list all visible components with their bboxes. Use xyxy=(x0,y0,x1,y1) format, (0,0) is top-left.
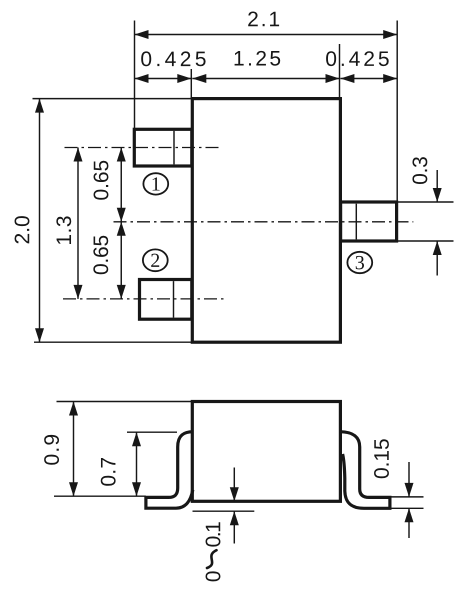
label 0a xyxy=(206,571,221,581)
dimension 1.3 xyxy=(77,148,79,299)
dimension 0.15 lead thickness xyxy=(391,496,424,498)
extension line package left edge above top xyxy=(190,69,192,98)
label 0.7 xyxy=(101,458,116,486)
extension line foot top left xyxy=(54,495,146,497)
package body side view xyxy=(192,402,340,502)
pin 3 lead (top view) xyxy=(341,202,397,241)
dimension 2.0 xyxy=(39,99,41,343)
extension line far right vertical x397.2 xyxy=(396,21,398,202)
dimension 0.425 right xyxy=(340,78,397,80)
label 0.9 xyxy=(44,435,59,465)
package mid centerline xyxy=(114,221,414,223)
right lead side view xyxy=(340,432,390,509)
extension line side top xyxy=(57,401,193,403)
pin 1 centerline xyxy=(65,147,221,149)
pin number 3 xyxy=(347,252,372,273)
left lead side view xyxy=(146,432,193,509)
dimension 0.3 pin3 xyxy=(398,201,454,203)
extension line top left vertical x134.5 xyxy=(134,21,136,130)
dimension 0.425 left xyxy=(135,78,192,80)
label 0.15 xyxy=(374,439,389,478)
pin 2 lead (top view) xyxy=(140,280,192,320)
pin 2 lead bend line xyxy=(173,281,175,318)
seating line xyxy=(193,510,255,512)
label 2.0 xyxy=(15,216,30,243)
extension line package bottom left horizontal xyxy=(34,341,192,343)
label 0.425R xyxy=(326,51,389,66)
label 0.65a xyxy=(94,161,109,200)
label 1.25 xyxy=(235,51,281,66)
pin 2 centerline xyxy=(63,298,224,300)
pin number 1 xyxy=(143,173,168,194)
pin 1 lead bend line xyxy=(173,131,175,165)
pin 3 lead bend line xyxy=(355,204,357,240)
package body top view xyxy=(192,99,340,343)
label 2.1 xyxy=(248,12,279,27)
extension line package top left horizontal xyxy=(33,98,193,100)
extension line package right edge above top xyxy=(339,44,341,98)
pin number 2 xyxy=(143,249,168,271)
extension line lead top xyxy=(127,431,177,433)
label 1.3 xyxy=(56,216,71,244)
label 0.65b xyxy=(93,236,108,274)
label 0.425L xyxy=(141,51,205,66)
dimension 0.7 xyxy=(136,432,138,496)
dimension 1.25 xyxy=(192,78,339,80)
dimension 0.9 xyxy=(73,402,75,497)
label 0.3 xyxy=(412,157,427,184)
dimension 0~0.1 standoff xyxy=(233,468,235,502)
label 0.1 xyxy=(206,522,221,546)
dimension 0.65 upper xyxy=(120,148,122,222)
dimension 0.65 lower xyxy=(120,222,122,299)
pin 1 lead (top view) xyxy=(134,129,192,166)
tilde wave of 0~0.1 xyxy=(207,550,217,568)
dimension 2.1 xyxy=(135,34,398,36)
